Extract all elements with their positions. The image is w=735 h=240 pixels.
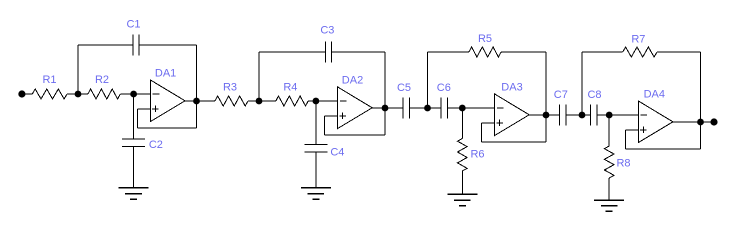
wire — [461, 171, 463, 194]
op-amp DA2 — [338, 87, 373, 129]
svg-text:DA2: DA2 — [342, 75, 363, 87]
svg-text:C6: C6 — [437, 82, 451, 94]
wire — [608, 178, 610, 200]
wire — [332, 51, 385, 53]
ground — [594, 200, 624, 211]
wire — [566, 114, 590, 116]
svg-text:R4: R4 — [283, 81, 297, 93]
wire — [481, 123, 483, 142]
svg-text:R1: R1 — [42, 74, 56, 86]
wire — [196, 45, 198, 128]
resistor R3 — [215, 96, 248, 106]
wire — [428, 51, 469, 53]
capacitor C3 — [326, 42, 332, 63]
wire — [139, 44, 196, 46]
resistor R2 — [88, 89, 120, 99]
resistor R4 — [276, 96, 308, 106]
wire — [138, 127, 197, 129]
wire — [77, 45, 79, 94]
capacitor C4 — [304, 145, 327, 153]
node DA4 output — [697, 119, 704, 126]
wire — [137, 109, 139, 128]
svg-text:R7: R7 — [631, 33, 645, 45]
node G (C7/C8/R7 tap) — [579, 112, 586, 119]
node C (R3/R4/C3 tap) — [256, 98, 263, 105]
wire — [315, 101, 317, 145]
capacitor C8 — [590, 105, 597, 126]
wire — [461, 108, 463, 139]
svg-text:DA1: DA1 — [155, 68, 176, 80]
wire — [448, 107, 495, 109]
svg-text:C8: C8 — [587, 89, 601, 101]
wire — [325, 134, 385, 136]
wire — [258, 52, 260, 101]
wire — [582, 51, 623, 53]
svg-text:R6: R6 — [470, 148, 484, 160]
ground — [119, 188, 149, 199]
node B (R2/DA1 in/C2) — [130, 91, 137, 98]
wire — [308, 100, 338, 102]
wire — [133, 147, 135, 188]
input terminal — [18, 90, 25, 97]
capacitor C1 — [133, 35, 139, 56]
node DA1 output — [193, 98, 200, 105]
resistor R7 — [623, 47, 657, 57]
svg-text:C4: C4 — [330, 147, 344, 159]
wire — [501, 51, 546, 53]
capacitor C5 — [403, 98, 410, 119]
wire — [427, 52, 429, 108]
op-amp DA1 — [151, 80, 186, 122]
wire — [608, 115, 610, 146]
svg-text:C2: C2 — [149, 139, 163, 151]
wire — [259, 51, 326, 53]
svg-text:R5: R5 — [478, 33, 492, 45]
svg-text:DA4: DA4 — [644, 89, 665, 101]
resistor R5 — [469, 47, 501, 57]
op-amp DA3 — [495, 94, 530, 136]
wire — [624, 130, 626, 149]
ground — [301, 188, 331, 199]
wire — [133, 94, 135, 139]
capacitor C2 — [122, 139, 145, 147]
node F (C6/DA3 in/R6) — [459, 105, 466, 112]
wire — [581, 52, 583, 115]
node A (R1/R2/C1 tap) — [75, 91, 82, 98]
wire — [384, 52, 386, 135]
wire — [409, 107, 441, 109]
op-amp DA4 — [638, 101, 673, 143]
wire — [120, 93, 150, 95]
svg-text:R8: R8 — [616, 157, 630, 169]
resistor R1 — [32, 89, 67, 99]
wire — [657, 51, 701, 53]
node H (C8/DA4 in/R8) — [606, 112, 613, 119]
wire — [625, 129, 638, 131]
wire — [324, 116, 326, 135]
svg-text:C1: C1 — [126, 19, 140, 31]
capacitor C6 — [441, 98, 448, 119]
capacitor C7 — [559, 105, 566, 126]
svg-text:R2: R2 — [95, 74, 109, 86]
svg-text:R3: R3 — [223, 81, 237, 93]
wire — [138, 108, 151, 110]
node D (R4/DA2 in/C4) — [313, 98, 320, 105]
wire — [700, 52, 702, 149]
wire — [673, 121, 714, 123]
wire — [545, 52, 547, 142]
wire — [482, 122, 495, 124]
svg-text:C3: C3 — [320, 25, 334, 37]
wire — [597, 114, 638, 116]
ground — [447, 194, 477, 205]
wire — [185, 100, 215, 102]
wire — [248, 100, 276, 102]
wire — [372, 107, 403, 109]
svg-text:DA3: DA3 — [501, 81, 522, 93]
resistor R8 — [604, 146, 614, 178]
node E (C5/C6/R5 tap) — [424, 105, 431, 112]
output terminal — [710, 118, 717, 125]
wire — [78, 44, 133, 46]
resistor R6 — [458, 139, 468, 172]
node DA2 output — [382, 105, 389, 112]
wire — [529, 114, 559, 116]
wire — [482, 141, 546, 143]
wire — [625, 148, 700, 150]
wire — [315, 152, 317, 188]
node DA3 output — [543, 112, 550, 119]
svg-text:C7: C7 — [554, 89, 568, 101]
svg-text:C5: C5 — [397, 82, 411, 94]
wire — [325, 115, 338, 117]
wire — [22, 93, 32, 95]
wire — [67, 93, 88, 95]
